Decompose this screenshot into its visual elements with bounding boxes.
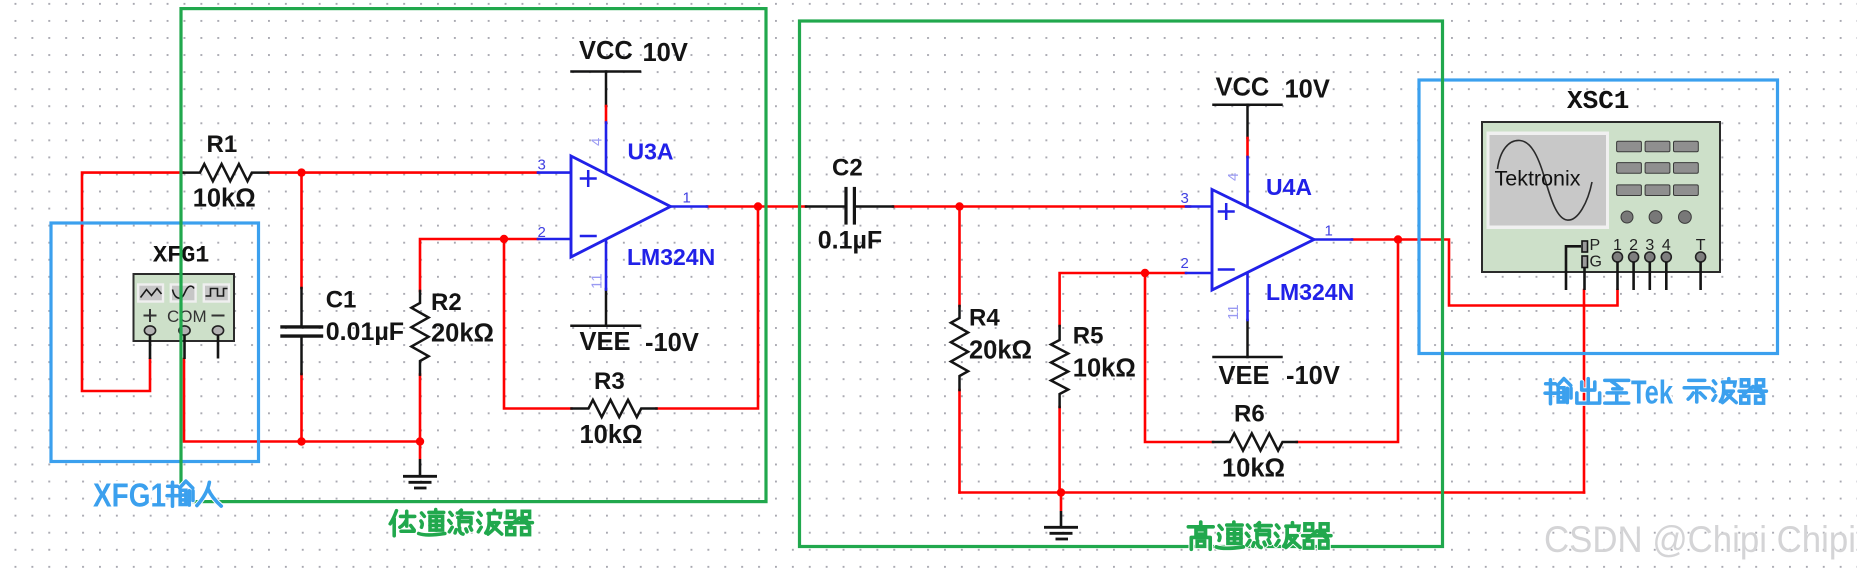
XFG1 terminals	[144, 326, 223, 335]
resistor R5	[1051, 326, 1068, 407]
XSC1 terminal stubs	[1566, 246, 1701, 290]
XSC1 button grid	[1617, 141, 1699, 195]
op-amp U4A	[1186, 157, 1352, 320]
resistor R3	[572, 400, 657, 417]
svg-text:10V: 10V	[1285, 76, 1330, 104]
wire: feedback2 right	[1297, 240, 1398, 443]
wire: R4 bottom	[958, 390, 961, 493]
wire: scope G down	[1583, 290, 1586, 493]
INSTRUMENTS	[134, 122, 1721, 359]
svg-text:R2: R2	[431, 289, 462, 316]
node: U3A output junction	[754, 202, 762, 210]
svg-text:1: 1	[683, 190, 691, 207]
svg-text:10kΩ: 10kΩ	[193, 185, 256, 213]
label: XFG1 input (blue text)	[167, 481, 221, 506]
box: XFG1 input (blue)	[51, 223, 259, 462]
svg-text:10kΩ: 10kΩ	[1073, 355, 1136, 383]
svg-text:COM: COM	[167, 307, 207, 326]
svg-text:2: 2	[538, 224, 546, 241]
XFG1 sine-wave glyph	[173, 286, 195, 298]
svg-text:4: 4	[1225, 173, 1242, 181]
svg-text:1: 1	[1325, 223, 1333, 240]
resistor R1	[183, 164, 268, 181]
svg-text:-10V: -10V	[645, 329, 699, 357]
wire: COM down and bottom rail	[184, 359, 420, 442]
svg-text:20kΩ: 20kΩ	[431, 320, 494, 348]
node: U4A output junction	[1394, 235, 1402, 243]
wire: R5 top to pin2	[1060, 273, 1186, 326]
svg-text:3: 3	[1181, 190, 1189, 207]
svg-text:Tektronix: Tektronix	[1495, 167, 1581, 191]
svg-text:10kΩ: 10kΩ	[1222, 455, 1285, 483]
ground (HPF)	[1044, 493, 1078, 540]
resistor R6	[1213, 433, 1297, 450]
OPAMPS	[538, 123, 1352, 321]
XSC1 G wire	[1583, 268, 1586, 291]
wire: VCC red segment U3A	[605, 106, 608, 123]
svg-text:C1: C1	[326, 287, 357, 314]
svg-text:C2: C2	[832, 155, 863, 182]
oscilloscope XSC1 body	[1482, 122, 1720, 272]
svg-text:LM324N: LM324N	[1266, 279, 1354, 305]
svg-text:VEE: VEE	[580, 328, 631, 356]
XSC1 screen	[1487, 132, 1610, 230]
label: output to Tek scope (blue text)	[1545, 379, 1766, 404]
svg-text:XFG1: XFG1	[93, 477, 166, 514]
XFG1 triangle-wave glyph	[141, 289, 162, 298]
svg-text:U4A: U4A	[1266, 174, 1312, 200]
svg-text:3: 3	[538, 157, 546, 174]
wire: feedback1 right vertical	[657, 207, 759, 409]
wire: R2 top to pin2	[420, 239, 538, 291]
wire: input loop left	[82, 173, 183, 391]
wire: R2 bottom	[419, 375, 422, 442]
box: low-pass filter (green)	[181, 9, 766, 502]
svg-text:11: 11	[1225, 304, 1242, 320]
svg-text:R3: R3	[594, 368, 625, 395]
node: C2 output / R4 top junction	[955, 202, 963, 210]
wire: VCC red segment U4A	[1246, 138, 1249, 157]
svg-text:2: 2	[1181, 255, 1189, 272]
node: R1 output / C1 top junction	[297, 168, 305, 176]
svg-text:P: P	[1590, 237, 1601, 254]
capacitor C2	[806, 189, 893, 224]
XSC1 P/G connector bars	[1582, 241, 1588, 268]
wire: feedback2 left	[1145, 273, 1213, 442]
svg-text:VEE: VEE	[1219, 362, 1270, 390]
label: high-pass filter (green text)	[1188, 522, 1331, 549]
wire: C2 to U4A pin3	[893, 205, 1190, 208]
svg-text:0.1µF: 0.1µF	[818, 227, 882, 255]
VCC bar U4A	[1214, 105, 1282, 138]
XFG1 waveform buttons	[138, 285, 229, 302]
svg-text:CSDN @Chipi Chipi: CSDN @Chipi Chipi	[1544, 519, 1856, 560]
XFG1 +/COM/- row	[144, 309, 225, 322]
svg-text:R6: R6	[1234, 401, 1265, 428]
capacitor C1	[282, 288, 322, 374]
svg-text:VCC: VCC	[1216, 74, 1270, 102]
wire: C1 branch top	[300, 173, 303, 288]
node: C1 bottom junction	[297, 437, 305, 445]
wire: R1 right to U3A pin3	[268, 171, 538, 174]
box: high-pass filter (green)	[800, 21, 1443, 547]
svg-text:Tek: Tek	[1631, 374, 1673, 411]
svg-text:U3A: U3A	[628, 139, 674, 165]
svg-text:XSC1: XSC1	[1567, 86, 1629, 116]
wire: bottom rail HPF	[960, 491, 1585, 494]
XFG1 terminal stubs	[150, 335, 218, 359]
svg-text:10V: 10V	[643, 39, 688, 67]
resistor R4	[951, 306, 968, 390]
svg-text:G: G	[1590, 254, 1602, 271]
wire: feedback1 left vertical	[504, 239, 572, 409]
svg-text:-10V: -10V	[1286, 362, 1340, 390]
svg-text:VCC: VCC	[579, 37, 633, 65]
svg-text:R1: R1	[207, 131, 238, 158]
node: R5 bottom / ground junction	[1057, 488, 1065, 496]
wire: C1 branch bottom	[300, 374, 303, 442]
box: output to scope (blue)	[1419, 80, 1778, 354]
ground (LPF)	[403, 442, 437, 489]
VEE bar U3A	[572, 289, 641, 326]
wire: U3A output to C2	[707, 205, 806, 208]
label: low-pass filter (green text)	[390, 510, 532, 536]
XFG1 square-wave glyph	[206, 289, 228, 297]
node: U4A inverting input junction	[1141, 269, 1149, 277]
node: U3A inverting input junction	[500, 235, 508, 243]
VEE bar U4A	[1214, 320, 1282, 357]
XSC1 screen sine curve	[1498, 140, 1593, 220]
svg-text:20kΩ: 20kΩ	[969, 337, 1032, 365]
svg-text:10kΩ: 10kΩ	[580, 421, 643, 449]
svg-text:R4: R4	[969, 305, 1000, 332]
XSC1 P wire	[1566, 246, 1581, 290]
wire: U4A output to scope	[1352, 240, 1618, 306]
XSC1 terminal circles	[1613, 252, 1706, 262]
function generator XFG1 body	[134, 274, 235, 341]
svg-text:R5: R5	[1073, 323, 1104, 350]
XSC1 knobs	[1621, 211, 1691, 224]
resistor R2	[411, 291, 428, 375]
node: R2 bottom / ground junction	[416, 437, 424, 445]
wire: R5 bottom	[1058, 407, 1061, 493]
svg-text:LM324N: LM324N	[627, 244, 715, 270]
VCC bar U3A	[572, 72, 641, 107]
op-amp U3A	[538, 123, 707, 290]
wire: R4 branch top	[958, 207, 961, 307]
XSC1 channel numbers	[1613, 237, 1706, 254]
svg-text:4: 4	[589, 138, 606, 146]
svg-text:0.01µF: 0.01µF	[326, 318, 404, 346]
svg-text:11: 11	[589, 273, 606, 289]
